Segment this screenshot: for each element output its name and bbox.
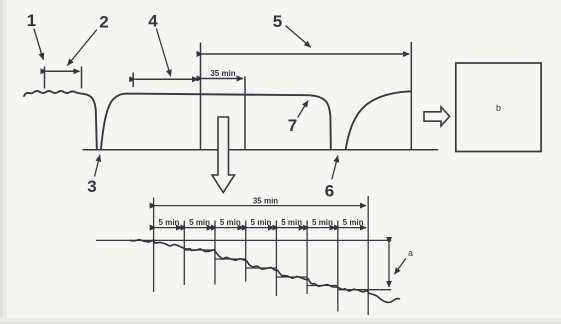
wire: rising curve to first plateau and plateau with falling edge (101, 94, 331, 149)
svg-text:5: 5 (273, 12, 282, 31)
wire: 5 min dimension arrow 4 (248, 227, 274, 229)
wire: 5 min dimension arrow 3 (217, 227, 243, 229)
wire: tick at left end of dimension 4 (132, 73, 134, 88)
wire: dimension line 4 (135, 78, 198, 80)
wire: step level 5 (276, 276, 307, 278)
svg-text:2: 2 (99, 13, 108, 32)
wire: step level 4 (246, 267, 277, 269)
wire: interval tick at 15 min (245, 221, 247, 282)
box b outline (456, 63, 541, 152)
wire: 5 min dimension arrow 5 (279, 227, 305, 229)
node: long vertical line at start of 35 min interval (200, 43, 202, 150)
svg-text:5 min: 5 min (343, 218, 364, 227)
wire: leader arrow from label 2 (68, 30, 97, 65)
wire: step level 7 and lower reference line of a (338, 289, 391, 291)
svg-text:5 min: 5 min (189, 218, 210, 227)
svg-text:5 min: 5 min (312, 218, 333, 227)
svg-text:5 min: 5 min (251, 218, 272, 227)
wire: interval tick at 20 min (275, 221, 277, 297)
wire: leader arrow from label 3 (95, 155, 100, 176)
svg-text:5 min: 5 min (281, 218, 302, 227)
scan shading left edge (0, 0, 7, 324)
wire: noisy stepped trace (130, 240, 400, 303)
svg-text:4: 4 (148, 12, 158, 31)
wire: step level 2 (184, 249, 215, 251)
wire: 5 min dimension arrow 1 (156, 227, 182, 229)
node: vertical line at right end of interval 5 (410, 42, 412, 150)
wire: leader arrow from label 6 (332, 156, 338, 179)
wire: interval tick at 5 min (183, 221, 185, 286)
wire: dimension line 35 min (upper) (203, 78, 243, 80)
wire: leader arrow from label 5 (286, 26, 310, 47)
svg-text:35 min: 35 min (253, 197, 278, 206)
wire: 5 min dimension arrow 7 (340, 227, 366, 229)
wire: step level 3 (215, 258, 246, 260)
wire: baseline of upper diagram (83, 149, 438, 151)
wire: left boundary tick of lower 35 min (153, 198, 155, 293)
hollow right arrow to box b (424, 107, 450, 126)
wire: 5 min dimension arrow 2 (187, 227, 213, 229)
wire: interval tick at 30 min (337, 221, 339, 312)
wire: vertical double arrow for a (388, 243, 390, 287)
wire: leader arrow from label a (395, 259, 406, 275)
wire: right boundary tick of lower 35 min (367, 196, 369, 315)
wire: leader arrow from label 1 (34, 29, 43, 59)
svg-text:a: a (408, 248, 413, 258)
wire: step level 6 (307, 285, 338, 287)
wire: tick right of bracket 1-2 (81, 67, 83, 89)
scan shading bottom edge (0, 318, 561, 324)
wire: dimension line for 1/2 bracket (47, 70, 80, 72)
wire: leader arrow from label 4 (157, 29, 171, 76)
wire: leader arrow from label 7 (298, 101, 308, 117)
svg-text:3: 3 (87, 177, 96, 196)
hollow down arrow between diagrams (212, 117, 235, 193)
svg-text:1: 1 (27, 11, 36, 30)
svg-text:7: 7 (288, 116, 297, 135)
svg-text:b: b (496, 103, 501, 113)
svg-text:35 min: 35 min (210, 69, 235, 78)
wire: tick left of bracket 1-2 (44, 67, 46, 89)
svg-text:5 min: 5 min (159, 218, 180, 227)
wire: interval tick at 25 min (306, 221, 308, 295)
wire: upper reference line of a (96, 239, 391, 241)
wire: 5 min dimension arrow 6 (309, 227, 335, 229)
svg-text:6: 6 (325, 182, 334, 201)
wire: second rising curve at right (346, 91, 411, 149)
node: vertical line at end of 35 min interval (244, 77, 246, 150)
wire: dimension line 5 (203, 53, 409, 55)
wire: interval tick at 10 min (214, 221, 216, 285)
wire: lower 35 min dimension line (156, 205, 366, 207)
svg-text:5 min: 5 min (220, 218, 241, 227)
wire: wavy signal segment upper-left (24, 91, 97, 149)
